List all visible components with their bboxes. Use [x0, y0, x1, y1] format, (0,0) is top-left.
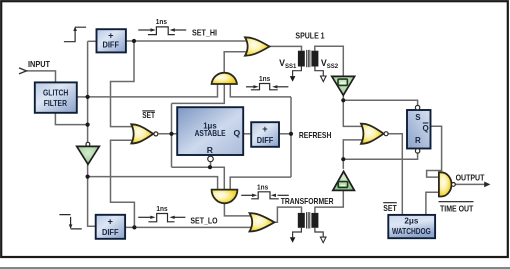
wire main vertical to and2 left input [88, 177, 218, 190]
wire glitch to and1 left input [88, 84, 218, 97]
svg-text:OUTPUT: OUTPUT [456, 173, 486, 183]
svg-text:REFRESH: REFRESH [299, 130, 332, 140]
svg-text:SET: SET [142, 111, 155, 120]
astable box [177, 107, 243, 162]
wire or3 output to transformer2 left [274, 207, 301, 222]
nor gate nor1 set [131, 124, 158, 143]
junction at glitch filter output [86, 95, 90, 99]
falling edge symbol [59, 215, 81, 229]
wire set_hi branch to nor1 top input [111, 41, 135, 127]
svg-text:DIFF: DIFF [103, 39, 120, 49]
pulse symbol p2 1ns transformer [246, 84, 288, 90]
svg-text:VSS1: VSS1 [279, 58, 297, 70]
junction set_hi [132, 39, 136, 43]
wire diff2 output set_lo to or3 [125, 226, 251, 228]
wire flipflop Q to nand top input [427, 126, 442, 177]
wire nor1 output to astable input [159, 133, 177, 135]
transformer2 left lead ground [293, 228, 302, 238]
watchdog box [388, 215, 435, 238]
wire and2 output to or3 [224, 203, 251, 216]
svg-text:VSS2: VSS2 [321, 58, 339, 70]
wire buffer3 input from transformer2 [315, 190, 343, 213]
wire R branch to flipflop R [343, 153, 417, 159]
junction refresh node [289, 132, 293, 136]
pulse symbol p1 1ns set_hi [138, 27, 186, 35]
transformer1 spule1 [290, 50, 326, 82]
wire S branch to flipflop S [343, 100, 417, 105]
junction astable reset loop [208, 165, 212, 169]
astable R inversion bubble [208, 156, 214, 162]
wire trigger bus vertical [171, 103, 173, 167]
junction node R [341, 157, 345, 161]
buffer tri3 schmitt up [333, 171, 355, 190]
svg-text:SPULE 1: SPULE 1 [295, 31, 325, 40]
wire main vertical to diff1 input [88, 40, 97, 42]
wire refresh bottom to and2 right input [230, 177, 291, 190]
svg-text:+: + [108, 217, 113, 227]
svg-text:R: R [207, 145, 214, 155]
wire nor2 output to watchdog [388, 134, 402, 215]
junction astable trigger [169, 132, 173, 136]
nand gate output [439, 172, 455, 196]
svg-text:WATCHDOG: WATCHDOG [392, 226, 431, 236]
wire glitch filter bottom loop [55, 113, 87, 125]
pulse symbol p3 1ns set_lo [138, 214, 185, 222]
and gate dome1 [212, 73, 237, 84]
svg-text:1ns: 1ns [156, 204, 167, 213]
svg-text:GLITCH: GLITCH [43, 88, 68, 98]
flipflop box [407, 105, 431, 153]
wire and1 output to or1 [224, 52, 247, 72]
svg-text:1ns: 1ns [259, 74, 270, 83]
junction node S [341, 98, 345, 102]
junction set_lo [132, 225, 136, 229]
wire watchdog output to nand bottom input [426, 192, 440, 215]
svg-text:SET_LO: SET_LO [190, 217, 217, 226]
flipflop S bubble [415, 105, 419, 109]
transformer1 vss1 lead [293, 67, 302, 77]
junction glitch filter feedback [86, 123, 90, 127]
svg-text:S: S [415, 113, 421, 122]
buffer tri1 inverter [77, 142, 100, 164]
svg-text:INPUT: INPUT [28, 59, 51, 69]
wire astable Q to diff3 [243, 133, 251, 135]
wire input to glitch filter [25, 71, 56, 83]
junction main bus to and2 [86, 175, 90, 179]
svg-text:+: + [262, 124, 267, 134]
svg-text:FILTER: FILTER [44, 98, 68, 108]
wire nand output [455, 183, 486, 185]
or gate or3 set_lo [250, 213, 275, 231]
wire or1 output to transformer1 left [269, 46, 301, 50]
and gate dome2 [212, 190, 238, 204]
transformer1 vss2 lead [315, 67, 323, 77]
diff2 box [96, 215, 125, 239]
transformer2 [290, 212, 326, 243]
wire diff3 output refresh [279, 133, 291, 135]
nor gate nor2 [361, 124, 388, 144]
svg-text:R: R [415, 136, 421, 145]
diff1 box [97, 29, 126, 52]
input arrow head [19, 68, 26, 74]
bottom page rule [0, 267, 510, 269]
svg-text:2μs: 2μs [404, 216, 418, 226]
or gate or1 set_hi [245, 37, 270, 55]
svg-text:1ns: 1ns [257, 182, 268, 191]
svg-text:Q: Q [233, 128, 240, 138]
wire astable R bubble to trigger bus [172, 162, 225, 190]
pulse symbol p4 1ns transformer2 [241, 192, 289, 199]
svg-text:DIFF: DIFF [257, 135, 274, 145]
wire transformer1 right to buffer2 [315, 46, 344, 76]
wire set_lo branch to nor1 bottom input [111, 140, 135, 227]
flipflop R bubble [415, 149, 419, 153]
wire refresh vertical [290, 97, 292, 177]
output arrow head [484, 182, 490, 188]
svg-text:DIFF: DIFF [102, 227, 119, 237]
wire and1 right input to refresh vertical [230, 84, 291, 97]
rising edge symbol [64, 27, 86, 42]
wire main vertical bus [88, 41, 96, 226]
svg-text:1ns: 1ns [156, 17, 167, 26]
svg-text:Q: Q [422, 124, 428, 133]
diff3 box [251, 122, 279, 147]
wire buffer2 output S line [343, 95, 362, 126]
wire buffer3 output to nor2 bottom input [343, 140, 362, 169]
wire glitch filter output to main vertical [77, 96, 88, 98]
wire trigger to and1 middle input [172, 84, 225, 103]
wire diff1 output set_hi to or1 [126, 40, 247, 42]
buffer tri2 schmitt down [332, 76, 355, 95]
transformer2 right lead ground [315, 228, 323, 238]
svg-text:SET_HI: SET_HI [192, 29, 217, 38]
svg-text:SET: SET [383, 204, 397, 213]
svg-text:ASTABLE: ASTABLE [195, 128, 226, 138]
svg-text:TRANSFORMER: TRANSFORMER [281, 197, 334, 206]
svg-text:TIME OUT: TIME OUT [440, 205, 473, 214]
glitch filter box [35, 82, 77, 112]
